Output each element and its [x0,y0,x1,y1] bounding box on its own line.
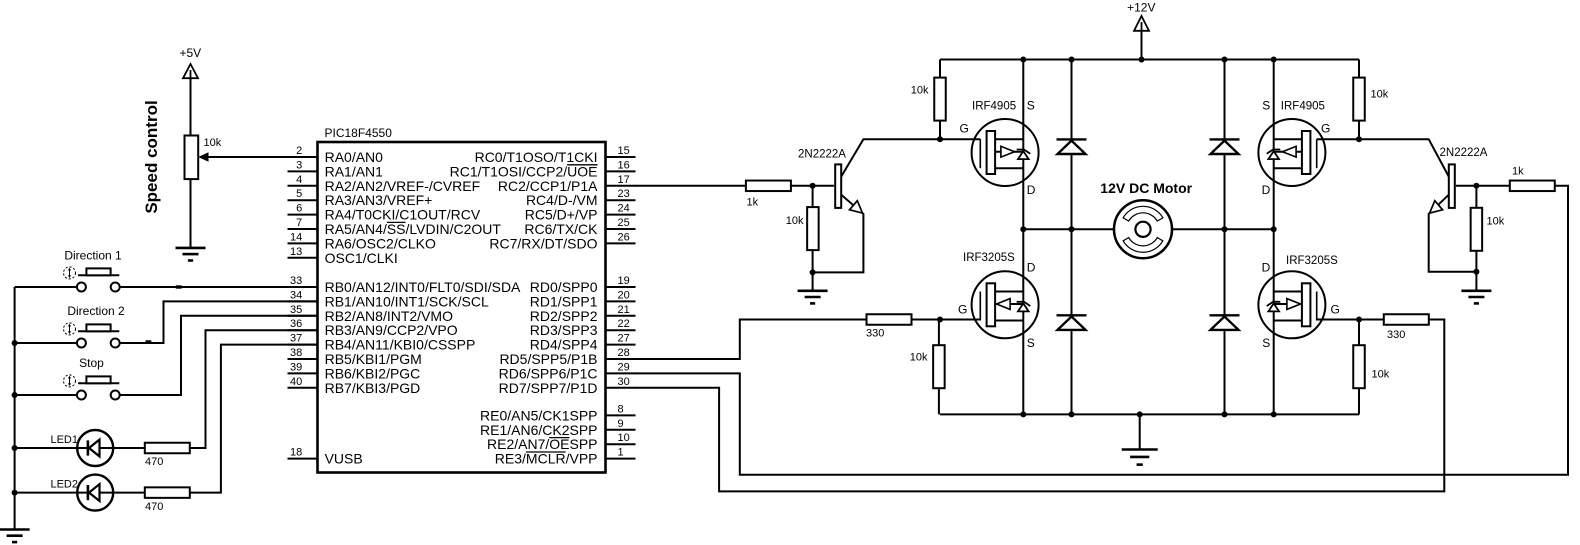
resistor 1k (right) [1510,181,1555,192]
svg-text:OSC1/CLKI: OSC1/CLKI [325,250,398,266]
LED D2 [77,475,113,511]
svg-text:PIC18F4550: PIC18F4550 [325,126,393,140]
svg-text:10k: 10k [204,137,222,149]
wire 1k to base node (right) [1456,185,1510,187]
wire LED2 to R 470 [113,492,145,494]
svg-text:35: 35 [290,304,302,316]
wire Stop to RB2 pin35 [120,316,318,395]
svg-text:16: 16 [618,159,630,171]
svg-text:S: S [1262,99,1270,113]
svg-text:2N2222A: 2N2222A [798,149,846,161]
junction bus-D2 [12,340,18,346]
svg-text:RE3/MCLR/VPP: RE3/MCLR/VPP [495,451,598,467]
wire to ground (right transistor) [1475,272,1477,291]
wire bus to Stop [15,394,77,396]
wire S-D column left [1022,60,1024,415]
svg-text:14: 14 [290,231,302,243]
junction ground rail [1222,411,1228,417]
svg-text:3: 3 [296,159,302,171]
wire ground rail [940,413,1359,415]
MOSFET Q1 IRF4905 (top-left) [972,119,1039,186]
wire RD6 pin29 to right 1k [635,186,1568,475]
svg-text:LED2: LED2 [50,479,78,491]
svg-text:1: 1 [618,447,624,459]
svg-text:24: 24 [618,203,630,215]
wire 1k to base node [791,185,834,187]
svg-text:Speed control: Speed control [142,100,161,213]
resistor 330 (right) [1384,314,1429,325]
junction motor row [1020,226,1026,232]
wire motor row [1023,228,1273,230]
svg-text:36: 36 [290,318,302,330]
pushbutton Direction 2 [64,323,120,348]
svg-text:470: 470 [145,501,163,513]
junction ground rail [1020,411,1026,417]
svg-text:G: G [958,303,967,317]
svg-text:25: 25 [618,217,630,229]
power +12V [1127,1,1155,60]
wire Direction2 to RB1 pin34 [120,301,318,343]
junction gate right bottom [1356,317,1362,323]
wire bus to Direction2 [15,342,77,344]
svg-text:6: 6 [296,203,302,215]
wire left ground bus [14,287,16,530]
svg-text:330: 330 [866,328,884,340]
svg-text:10k: 10k [910,352,928,364]
ground (right transistor) [1461,291,1491,304]
diode D5 (bottom-left) [1057,315,1087,330]
svg-text:10k: 10k [1371,89,1389,101]
resistor 330 (left) [867,314,912,325]
junction ground rail [1271,411,1277,417]
MOSFET Q3 IRF4905 (top-right) [1258,119,1325,186]
IC U1 pins [288,145,636,467]
net tick 1 [176,285,182,288]
wire gate lead right bottom [1317,319,1359,321]
wire R470 to RB3 pin36 [190,330,318,448]
svg-text:D: D [1027,261,1036,275]
svg-text:2: 2 [296,145,302,157]
power +5V [179,46,201,136]
svg-text:8: 8 [618,403,624,415]
svg-text:39: 39 [290,361,302,373]
svg-text:40: 40 [290,376,302,388]
svg-text:12V DC Motor: 12V DC Motor [1100,180,1192,196]
junction rail [1222,57,1228,63]
motor M1 12V DC Motor [1114,200,1172,258]
ground (H-bridge) [1122,450,1158,465]
wire left 10k to gate node [939,121,941,140]
svg-text:330: 330 [1387,329,1405,341]
svg-text:29: 29 [618,361,630,373]
resistor 10k base pulldown (right) [1471,186,1483,272]
svg-text:18: 18 [290,447,302,459]
svg-text:10k: 10k [1372,369,1390,381]
wire pot to ground [190,179,192,248]
svg-text:+12V: +12V [1127,1,1155,15]
svg-text:17: 17 [618,174,630,186]
LED D1 [77,430,113,466]
junction rail [1139,57,1145,63]
svg-text:26: 26 [618,231,630,243]
svg-text:S: S [1027,336,1035,350]
pushbutton Direction 1 [64,267,120,292]
svg-text:IRF4905: IRF4905 [972,101,1016,113]
svg-text:IRF3205S: IRF3205S [963,252,1015,264]
potentiometer RV1 10k speed control [185,136,222,180]
junction emitter-ground left [810,269,816,275]
net tick 2 [146,340,152,343]
wire S-D column right [1273,60,1275,415]
transistor Q5 2N2222A (left) [813,139,940,272]
svg-text:28: 28 [618,347,630,359]
svg-text:20: 20 [618,289,630,301]
svg-text:23: 23 [618,188,630,200]
IC U1 PIC18F4550 body [318,142,606,473]
wire diode column right [1224,60,1226,415]
wire R470 to RB4 pin37 [190,345,318,493]
svg-text:15: 15 [618,145,630,157]
svg-text:S: S [1027,99,1035,113]
svg-text:27: 27 [618,333,630,345]
junction emitter-ground right [1473,269,1479,275]
resistor 10k gate pulldown (right) [1353,320,1365,415]
resistor 1k (left) [746,181,791,192]
junction base left [810,183,816,189]
svg-text:19: 19 [618,275,630,287]
svg-text:VUSB: VUSB [325,451,363,467]
svg-text:RD7/SPP7/P1D: RD7/SPP7/P1D [499,380,598,396]
resistor 10k pull-up right [1353,78,1365,121]
resistor 470 (LED1) [145,443,190,454]
svg-text:10: 10 [618,432,630,444]
svg-text:22: 22 [618,318,630,330]
junction ground rail [1069,411,1075,417]
wire gate lead right top [1317,138,1359,140]
MOSFET Q2 IRF3205S (bottom-left) [972,271,1039,338]
svg-text:S: S [1262,336,1270,350]
svg-text:34: 34 [290,289,302,301]
wire pot wiper to RA0 pin2 [198,152,317,161]
pushbutton Stop [64,375,120,400]
junction motor row [1271,226,1277,232]
wire RD7 pin30 to right 330 [635,320,1444,492]
junction bus-Stop [12,392,18,398]
wire to ground (left transistor) [812,272,814,290]
svg-text:D: D [1262,183,1271,197]
wire rail to left 10k [939,60,941,78]
wire rail to ground [1139,414,1141,449]
ground (left bus) [0,530,30,543]
svg-text:2N2222A: 2N2222A [1440,147,1488,159]
svg-text:1k: 1k [747,197,759,209]
svg-text:21: 21 [618,304,630,316]
transistor Q6 2N2222A (right) [1359,139,1476,272]
junction bus-LED2 [12,490,18,496]
svg-text:IRF4905: IRF4905 [1281,101,1325,113]
svg-text:7: 7 [296,217,302,229]
junction ground rail [1137,411,1143,417]
svg-text:33: 33 [290,275,302,287]
junction rail [1069,57,1075,63]
svg-text:38: 38 [290,347,302,359]
wire bus to LED1 [15,447,78,449]
wire RC2 pin17 to 1k [635,185,746,187]
svg-text:RB7/KBI3/PGD: RB7/KBI3/PGD [325,380,421,396]
svg-text:Stop: Stop [79,356,104,370]
svg-text:10k: 10k [786,215,804,227]
svg-text:10k: 10k [911,85,929,97]
svg-text:Direction 2: Direction 2 [67,304,125,318]
svg-text:RC7/RX/DT/SDO: RC7/RX/DT/SDO [489,235,597,251]
junction rail [1020,57,1026,63]
svg-text:9: 9 [618,418,624,430]
svg-text:G: G [960,122,969,136]
resistor 10k gate pulldown (left) [933,320,945,415]
svg-text:30: 30 [618,376,630,388]
wire gate lead left top [940,138,980,140]
junction rail [1271,57,1277,63]
wire diode column left [1071,60,1073,415]
wire Direction1 to RB0 pin33 [120,286,318,288]
wire right 10k to gate node [1358,121,1360,140]
svg-text:1k: 1k [1512,166,1524,178]
diode D4 (top-right) [1210,139,1240,154]
ground (pot) [176,248,206,261]
svg-text:+5V: +5V [179,46,201,60]
resistor 10k base pulldown (left) [807,186,819,273]
wire bus to LED2 [15,492,78,494]
wire +12V rail [940,59,1359,61]
wire rail to right 10k [1358,60,1360,78]
wire right 330 to gate node [1359,319,1384,321]
svg-text:4: 4 [296,174,302,186]
svg-text:IRF3205S: IRF3205S [1286,255,1338,267]
diode D6 (bottom-right) [1210,315,1240,330]
wire left 330 to gate node [912,319,941,321]
svg-text:10k: 10k [1487,216,1505,228]
svg-text:Direction 1: Direction 1 [64,249,122,263]
wire gate lead left bottom [940,319,980,321]
svg-text:470: 470 [145,456,163,468]
junction gate left bottom [937,317,943,323]
wire LED1 to R 470 [113,447,145,449]
svg-text:D: D [1027,183,1036,197]
resistor 10k pull-up left [934,78,946,121]
junction gate left top [937,136,943,142]
junction motor row [1069,226,1075,232]
MOSFET Q4 IRF3205S (bottom-right) [1258,271,1325,338]
junction base right [1473,183,1479,189]
wire RD5 pin28 to left 330 [635,320,867,360]
svg-text:D: D [1262,261,1271,275]
svg-text:37: 37 [290,333,302,345]
ground (left transistor) [798,291,828,304]
svg-text:G: G [1331,303,1340,317]
svg-text:13: 13 [290,246,302,258]
junction gate right top [1356,136,1362,142]
svg-text:5: 5 [296,188,302,200]
svg-text:G: G [1321,122,1330,136]
svg-text:LED1: LED1 [50,434,78,446]
resistor 470 (LED2) [145,487,190,498]
wire bus to Direction1 [15,286,77,288]
junction motor row [1222,226,1228,232]
diode D3 (top-left) [1057,139,1087,154]
junction bus-LED1 [12,445,18,451]
